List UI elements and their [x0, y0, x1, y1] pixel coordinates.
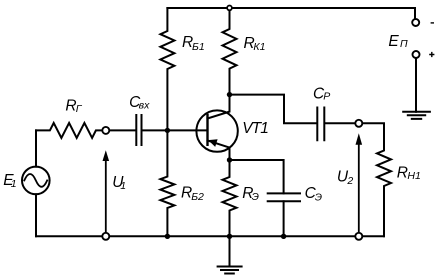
svg-text:R: R — [397, 165, 408, 182]
svg-text:1: 1 — [120, 180, 126, 192]
svg-text:Н1: Н1 — [407, 170, 420, 182]
svg-text:Г: Г — [76, 103, 83, 115]
svg-text:П: П — [400, 38, 408, 50]
svg-text:VT1: VT1 — [242, 120, 268, 137]
svg-text:2: 2 — [346, 175, 353, 187]
svg-text:Р: Р — [323, 91, 330, 103]
svg-text:Б2: Б2 — [191, 191, 204, 203]
svg-text:1: 1 — [11, 178, 17, 190]
svg-text:К1: К1 — [253, 41, 265, 53]
svg-text:Э: Э — [252, 191, 259, 203]
svg-text:вх: вх — [139, 100, 150, 112]
svg-text:Э: Э — [315, 191, 322, 203]
svg-text:E: E — [388, 33, 399, 50]
svg-text:Б1: Б1 — [192, 41, 205, 53]
